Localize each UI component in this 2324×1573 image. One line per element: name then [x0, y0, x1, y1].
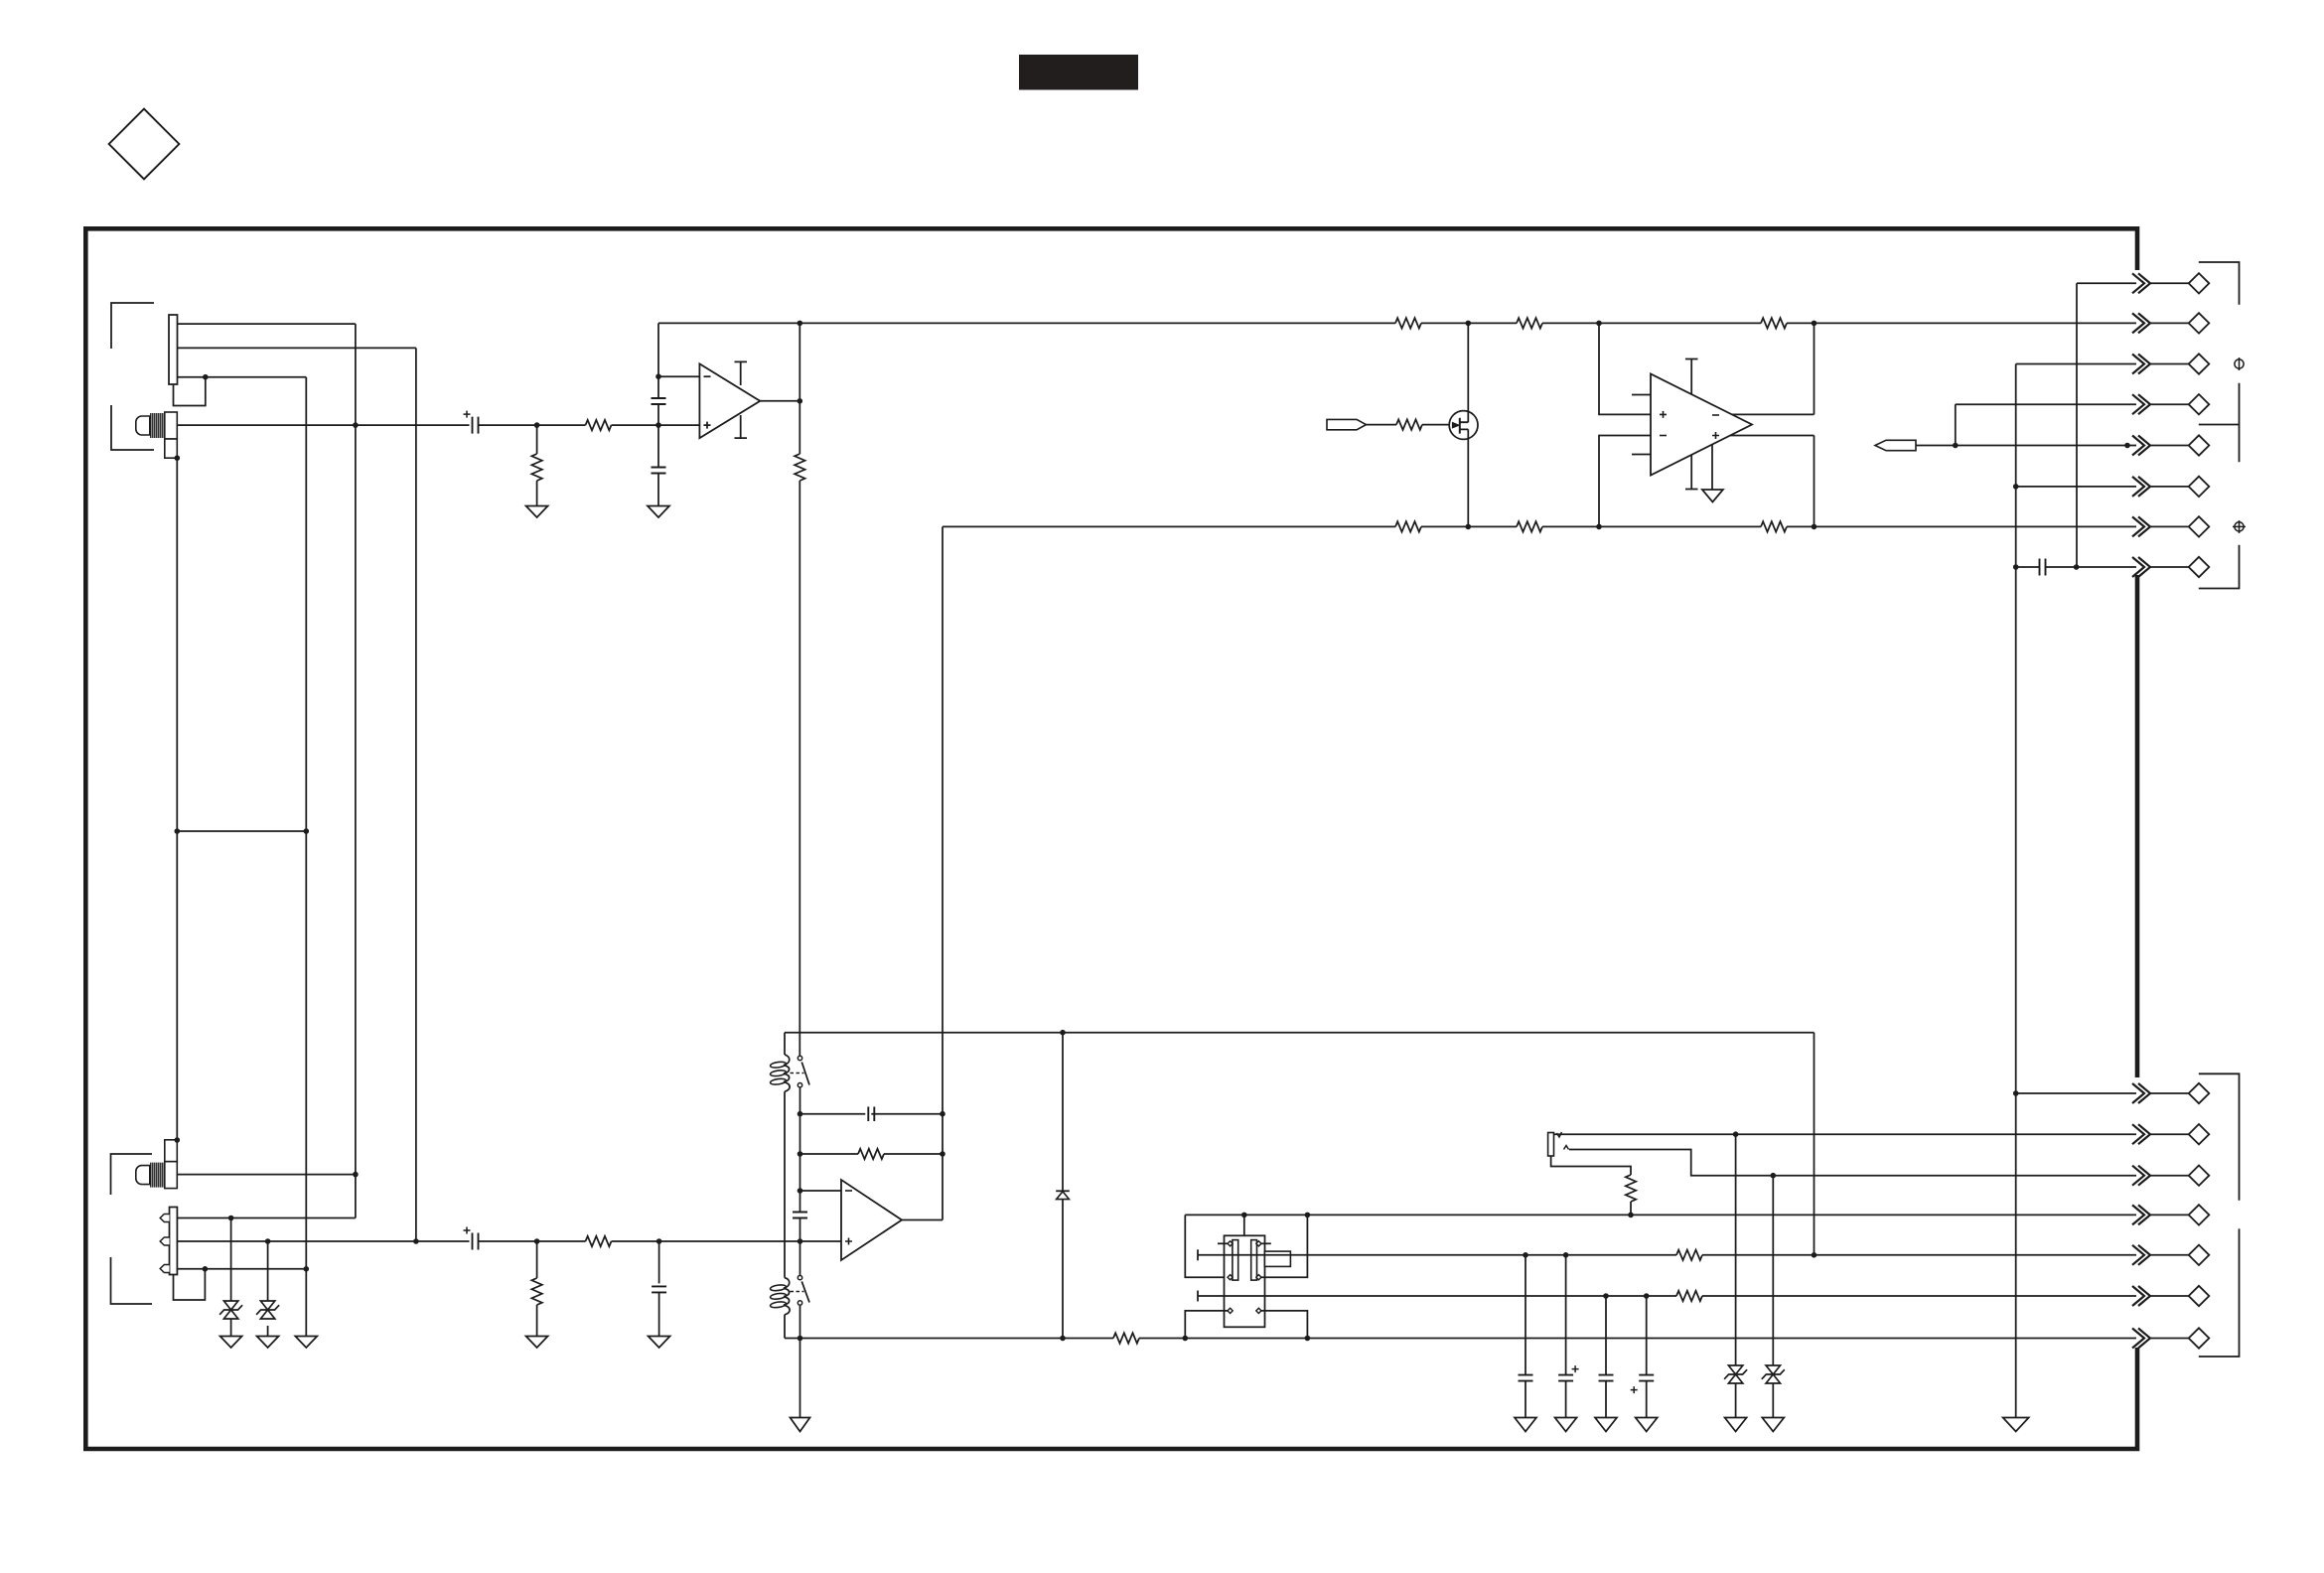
bracket P2 group b [2199, 1228, 2240, 1357]
U2 negative supply pin [1685, 455, 1698, 490]
wire module left leg [1185, 1215, 1228, 1277]
wire bottom rail elbow to U2 -in [1599, 436, 1676, 527]
ground under R1 [526, 506, 548, 518]
relay contact S1 [798, 1056, 801, 1060]
connector bracket J1 top [111, 303, 154, 349]
wire R1 stem [536, 425, 538, 454]
junction pin5 wire [2124, 443, 2130, 449]
ground shield bus [2003, 1418, 2029, 1432]
U1 positive supply pin [735, 361, 748, 385]
junction net3 [203, 374, 209, 380]
junction row2 tvs [265, 1238, 271, 1244]
wire R15 to rail [1630, 1202, 1632, 1215]
wire shield bus x2030 [2015, 364, 2017, 1418]
wire U2 outtop to pin2 rail [1814, 323, 1816, 414]
junction row6 capD [1644, 1293, 1650, 1299]
bracket P1 group c [2199, 545, 2240, 589]
wire module bottom left leg [1185, 1311, 1228, 1339]
U2 positive supply pin [1685, 359, 1698, 395]
wire U1 inv column mid [657, 404, 659, 468]
relay coil K1b [784, 1278, 790, 1315]
RV1 wiper mark caret [1564, 1146, 1569, 1150]
module pin pad 5 [1228, 1308, 1233, 1313]
wire U2 output top [1732, 413, 1815, 415]
capacitor C5 (U3 fb) [868, 1107, 874, 1122]
wire capacitor C9 stem [1525, 1255, 1526, 1418]
connector P2 pin7 [2149, 1338, 2189, 1340]
wire tvs Z3 gnd [1735, 1383, 1737, 1418]
wire tvs Z3 stem [1735, 1134, 1737, 1365]
junction row2 busB [413, 1238, 419, 1244]
wire net1 top (sleeve) [178, 323, 356, 325]
wire row6 stub tick [1197, 1291, 1199, 1302]
ground capacitor C11 [1595, 1418, 1617, 1432]
wire vertical bus B x419 [415, 348, 417, 1241]
bracket P1 group b [2199, 383, 2240, 462]
capacitor C2 (U1 comp) [652, 398, 666, 404]
connector P1 pin3 [2016, 363, 2189, 365]
connector P2 pin3 [2149, 1175, 2189, 1177]
junction row6 capC [1603, 1293, 1609, 1299]
connector P1 pin4 [1956, 403, 2189, 405]
wire capacitor C11 stem [1605, 1296, 1607, 1418]
ground capacitor C10 (polarized) [1555, 1418, 1577, 1432]
jack J1 sleeve contact [169, 315, 178, 384]
resistor R9 (feedback bottom) [1761, 521, 1787, 531]
diode D1 [1062, 1033, 1064, 1339]
ground bus D [295, 1337, 317, 1349]
net flag MUTE [1327, 419, 1367, 429]
junction row5 capB [1563, 1252, 1569, 1258]
wire module pin stub tr [1261, 1242, 1271, 1244]
wire relay top rail [785, 1032, 1815, 1034]
resistor R13 (shunt) [531, 1278, 541, 1305]
wire U2 ground pin [1711, 445, 1713, 491]
jack J2 tip plug [165, 1162, 178, 1189]
capacitor C8 (shunt) [652, 1286, 666, 1292]
capacitor C6 (U3 in) [793, 1213, 807, 1218]
junction top rail Q1 drain [1466, 321, 1472, 327]
wire R1 to ground [536, 481, 538, 506]
wire R13 stem [536, 1241, 538, 1278]
wire net3 (sleeve-gnd) [178, 376, 307, 378]
connector J3 pin3 [160, 1265, 169, 1273]
connector P2 pin2 [2149, 1133, 2189, 1135]
relay coil K1a [784, 1055, 790, 1091]
wire row5 [1198, 1254, 2136, 1256]
resistor R8 (bottom rail) [1517, 521, 1542, 531]
module pin pad 2 [1256, 1241, 1261, 1246]
ground Z4 [1762, 1418, 1784, 1432]
wire tvs E1 stem [230, 1218, 232, 1302]
junction row3b tvs [1771, 1173, 1777, 1179]
wire module rail [1185, 1214, 2136, 1215]
wire tvs Z4 gnd [1772, 1383, 1774, 1418]
wire net2 (ring) [178, 347, 416, 349]
wire J3 pin1 row [177, 1217, 356, 1219]
wire U1 output down stem [799, 401, 800, 454]
junction U1 output [798, 398, 803, 404]
connector P1 pin6 [2016, 486, 2189, 488]
relay contact S2 [798, 1275, 801, 1279]
junction row5 capA [1523, 1252, 1528, 1258]
junction top rail fb [798, 321, 803, 327]
capacitor C11 [1599, 1375, 1614, 1381]
module pin pad 3 [1228, 1275, 1233, 1280]
protection diode Z4 [1766, 1365, 1780, 1374]
wire U1 -in [658, 375, 699, 377]
junction row1 tvs [228, 1215, 234, 1221]
polarity mark pin7 [2235, 522, 2244, 531]
ground main (relay) [791, 1418, 810, 1432]
jack J2 upper box [165, 1140, 178, 1162]
wire U3 -in [800, 1190, 842, 1192]
resistor R5 (top rail) [1517, 318, 1542, 328]
module pin pad 4 [1256, 1275, 1261, 1280]
wire J3 pin3 row [177, 1268, 306, 1270]
U2 minus label left [1660, 435, 1667, 437]
ground C8 [649, 1337, 670, 1349]
wire fb column [799, 1114, 801, 1213]
wire tvs E1 gnd stem [230, 1319, 232, 1337]
resistor R6 (feedback top) [1761, 318, 1787, 328]
wire pin1-pin8 link [2076, 283, 2078, 567]
U3 plus label [845, 1238, 852, 1245]
connector bracket J2 top [111, 1154, 153, 1195]
wire capacitor C10 (polarized) stem [1565, 1255, 1567, 1418]
wire net4 input (tip) [177, 424, 469, 426]
U3 minus label [845, 1190, 852, 1192]
wire Q1 drain up [1467, 323, 1469, 422]
RV1 wiper mark v [1557, 1132, 1562, 1137]
junction bottom rail pin7 [1812, 524, 1817, 530]
wire top rail (U1 fb to diff amp) [658, 322, 1815, 324]
wire relay left rail upper [784, 1033, 786, 1055]
junction U3 +in cross [798, 1238, 803, 1244]
junction net1-net4 [353, 422, 359, 428]
ground under C3 [648, 506, 669, 518]
resistor R17 (row6) [1676, 1291, 1702, 1301]
resistor R7 (bottom rail) [1395, 521, 1421, 531]
wire C8 stem [658, 1241, 660, 1283]
U1 negative supply pin [735, 415, 748, 438]
schematic border frame [85, 228, 2137, 1449]
U2 plus label left [1660, 411, 1667, 418]
protection diode Z3 [1728, 1365, 1742, 1374]
junction row3 jog [203, 1266, 209, 1272]
junction C8 tap [656, 1238, 662, 1244]
wire R2 to U1 +in [612, 424, 700, 426]
ground capacitor C12 (polarized) [1636, 1418, 1658, 1432]
connector P1 pin7 [1815, 525, 2189, 527]
module pin pad 6 [1256, 1308, 1261, 1313]
wire RV1 wiper path [1569, 1150, 2136, 1176]
resistor R16 (row5) [1676, 1250, 1702, 1260]
connector P1 pin5 [1916, 445, 2189, 447]
ground R13 [526, 1337, 548, 1349]
connector P1 pin2 [1815, 322, 2189, 324]
wire R10 to Q1 gate [1422, 424, 1452, 426]
protection diode Z2 [260, 1301, 274, 1310]
wire bottom rail [943, 525, 1815, 527]
resistor R15 (pot lower) [1626, 1175, 1636, 1202]
capacitor C9 [1519, 1375, 1533, 1381]
wire capacitor C12 (polarized) stem [1646, 1296, 1648, 1418]
junction U1 -in node [655, 373, 661, 379]
junction bottom rail Q1 source [1466, 524, 1472, 530]
wire C8 gnd stem [658, 1292, 660, 1336]
wire C3 to ground [657, 474, 659, 506]
ground Z1 [220, 1337, 242, 1349]
wire J3 pin2 row [177, 1240, 469, 1242]
potentiometer RV1 body [1548, 1133, 1554, 1157]
junction bottom rail diode [1060, 1336, 1066, 1342]
resistor R3 (U1 load) [795, 454, 804, 481]
junction module rail right [1305, 1213, 1311, 1218]
junction pin4 tap [1953, 443, 1959, 449]
resistor R1 (shunt) [531, 454, 541, 481]
wire crosslink shield [177, 830, 306, 832]
junction fb res [798, 1151, 803, 1157]
junction module bl rail [1183, 1336, 1189, 1342]
bracket P2 group a [2199, 1073, 2240, 1201]
connector J3 pin2 [160, 1237, 169, 1245]
logo diamond [109, 109, 180, 180]
junction module br rail [1305, 1336, 1311, 1342]
junction U1 +in node [655, 422, 661, 428]
module X1 body [1225, 1235, 1265, 1327]
wire relay bottom rail [785, 1338, 2136, 1340]
wire J1 sleeve to tip-box [174, 377, 206, 406]
U2 minus label right [1712, 414, 1719, 416]
wire R13 gnd stem [536, 1305, 538, 1337]
net flag OUT (left-pointing) [1875, 440, 1916, 450]
capacitor C7 (row2, polarized) [473, 1233, 479, 1250]
wire vertical bus D x308 [305, 377, 307, 1337]
resistor R2 (series input) [586, 420, 612, 430]
wire module top pin [1243, 1215, 1245, 1235]
junction bottom rail to -in [1596, 524, 1602, 530]
resistor R4 (top rail) [1395, 318, 1421, 328]
wire U3 output bus up [942, 526, 944, 1219]
wire RV1 bottom [1551, 1156, 1631, 1175]
junction fb res right [940, 1151, 945, 1157]
wire module pin stub tl [1218, 1242, 1228, 1244]
wire U2 output bottom [1730, 435, 1815, 437]
wire supply bus x1826 [1814, 1033, 1816, 1255]
junction J1 lower box [175, 455, 181, 461]
junction R13 tap [534, 1238, 540, 1244]
title block (redacted) [1019, 55, 1138, 90]
wire vertical bus A x358 [355, 324, 357, 1217]
U1 minus label [704, 375, 711, 377]
resistor R12 (series) [586, 1236, 612, 1246]
wire U1 output bus down [799, 481, 800, 1056]
connector P1 pin1 [2077, 282, 2189, 284]
junction shield pin6 [2013, 484, 2019, 490]
wire U2 stub upper [1632, 394, 1651, 396]
polarity mark pin3 [2235, 359, 2244, 368]
wire tvs Z4 stem [1772, 1176, 1774, 1365]
junction row3 busD [304, 1266, 310, 1272]
junction pin8 link [2074, 564, 2080, 570]
jack J1 tip plug [165, 412, 178, 439]
wire R12 to U3 [612, 1240, 842, 1242]
junction fb cap right [940, 1111, 945, 1117]
wire J3 pin3 jog [174, 1269, 206, 1300]
bracket P1 group a [2199, 262, 2240, 305]
wire U1 output [760, 400, 799, 402]
op-amp U3 [841, 1180, 902, 1260]
junction top rail diode [1060, 1030, 1066, 1036]
wire tvs E2 stem [267, 1241, 269, 1301]
wire flag to R10 [1367, 424, 1397, 426]
junction R1 tap [534, 422, 540, 428]
junction J2 shield [175, 1137, 181, 1143]
resistor R14 (bottom rail) [1113, 1333, 1139, 1343]
wire top rail elbow to U2 +in [1599, 323, 1676, 414]
connector P2 pin1 [2016, 1092, 2189, 1094]
junction crosslink left [175, 828, 181, 834]
wire C1 to R2 [479, 424, 586, 426]
module X1 element B [1251, 1240, 1257, 1281]
junction pin8 shield [2013, 564, 2019, 570]
transistor Q1 (mute FET) [1449, 411, 1478, 440]
wire U1 feedback vertical [799, 323, 800, 400]
connector P2 pin6 [2149, 1295, 2189, 1297]
junction module rail top pin [1241, 1213, 1247, 1218]
resistor R11 (U3 fb) [858, 1149, 884, 1159]
connector J3 pin1 [160, 1215, 169, 1222]
connector bracket J2 bottom [111, 1257, 153, 1304]
wire relay left rail mid [784, 1091, 786, 1277]
wire relay left rail lower [784, 1315, 786, 1339]
junction row2b tvs [1733, 1131, 1739, 1137]
wire fb res branch [800, 1153, 944, 1155]
wire U2 outbot to pin7 rail [1814, 436, 1816, 527]
wire module bottom right leg [1261, 1311, 1307, 1339]
op-amp U1 [699, 363, 760, 438]
connector P2 pin5 [2149, 1254, 2189, 1256]
wire RV1 top to row2b [1553, 1133, 2136, 1135]
ground Z2 [257, 1337, 279, 1349]
resistor R10 (gate) [1396, 419, 1422, 429]
wire Q1 source down [1467, 429, 1469, 526]
wire S2 down [799, 1306, 801, 1418]
junction J2 tip to busA [353, 1172, 359, 1178]
ground capacitor C9 [1515, 1418, 1536, 1432]
wire fb column lower [799, 1218, 801, 1275]
module pin pad 1 [1228, 1241, 1233, 1246]
module X1 element A [1233, 1240, 1238, 1281]
capacitor C10 (polarized) [1558, 1375, 1573, 1381]
wire J2 tip line [177, 1174, 356, 1176]
wire U2 stub lower [1632, 454, 1651, 456]
wire U1 inv column upper [657, 323, 659, 398]
junction S2 rail [798, 1336, 803, 1342]
module X1 side tab [1264, 1251, 1290, 1266]
connector J3 body [170, 1208, 178, 1275]
junction U3 -in [798, 1188, 803, 1194]
op-amp U2 (differential) [1651, 374, 1752, 476]
capacitor C12 (polarized) [1639, 1375, 1654, 1381]
wire row5 stub tick [1197, 1249, 1199, 1260]
protection diode Z1 [223, 1301, 237, 1310]
wire module right leg [1261, 1215, 1307, 1277]
ground U2 [1702, 490, 1723, 502]
connector P1 pin8 [2077, 566, 2189, 568]
junction row5b vert [1812, 1252, 1817, 1258]
wire pin8 cap links [2016, 566, 2077, 568]
junction shield row1b [2013, 1090, 2019, 1096]
junction top rail pin2 [1812, 321, 1817, 327]
wire S1 to fb node [799, 1088, 801, 1114]
wire fb cap branch [800, 1113, 944, 1115]
U2 plus label right [1712, 432, 1719, 439]
wire U3 output [902, 1219, 943, 1221]
junction module rail pot res [1628, 1213, 1634, 1218]
connector bracket J1 bottom [111, 405, 154, 450]
jack J1 lower box [165, 439, 178, 458]
wire vertical bus C x178 [176, 458, 178, 1140]
U1 plus label [704, 422, 711, 429]
ground Z3 [1725, 1418, 1747, 1432]
capacitor C1 (input, polarized) [473, 417, 479, 434]
capacitor C4 (pin8) [2040, 559, 2046, 576]
junction fb cap [798, 1111, 803, 1117]
wire tvs E2 gnd stem [267, 1326, 269, 1337]
wire pin4 branch [1955, 404, 1957, 445]
junction crosslink right [304, 828, 310, 834]
wire C7 to R12 [479, 1240, 586, 1242]
capacitor C3 (U1 +in filter) [652, 468, 666, 474]
connector P2 pin4 [2149, 1214, 2189, 1215]
wire row6 [1198, 1295, 2136, 1297]
junction top rail to +in [1596, 321, 1602, 327]
